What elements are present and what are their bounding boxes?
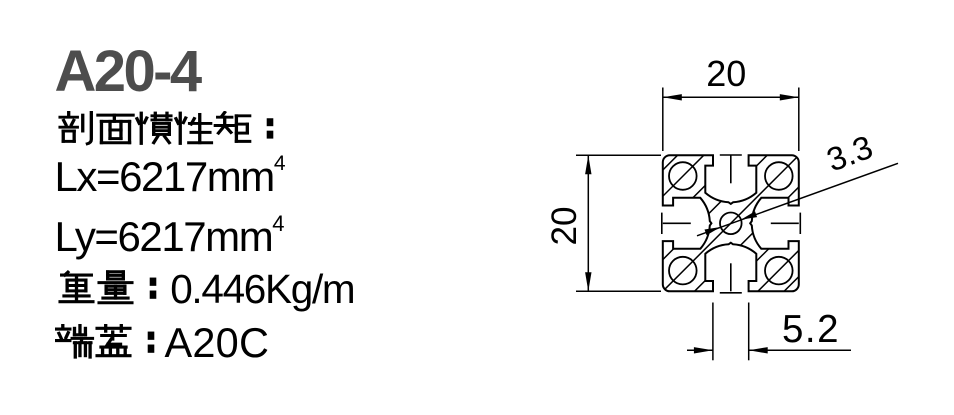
profile outline with four T-slots [663,155,799,291]
title A20-4 [55,43,200,101]
slot centerline marks [662,155,801,293]
corner hole BL [669,257,697,285]
line weight value [170,269,354,310]
top dimension 20 [663,88,799,152]
corner hole TL [669,162,697,190]
line weight CJK [57,270,165,310]
hatch lines (section lining) [538,151,925,295]
bottom dimension 5.2 [687,303,851,361]
line: section moment of inertia (CJK hand-drawn) [57,111,282,151]
svg-text:5.2: 5.2 [782,308,840,351]
corner hole TR [765,162,793,190]
line Lx [55,153,286,198]
svg-text:3.3: 3.3 [822,128,878,178]
line end-cap value [165,322,270,364]
center hole 3.3 [720,213,742,235]
svg-text:20: 20 [706,53,746,94]
line Ly [55,213,285,258]
left dimension 20 [576,155,661,291]
leader line for 3.3 [697,163,898,236]
line end-cap CJK [55,324,163,364]
corner hole BR [765,257,793,285]
svg-text:20: 20 [545,207,584,246]
